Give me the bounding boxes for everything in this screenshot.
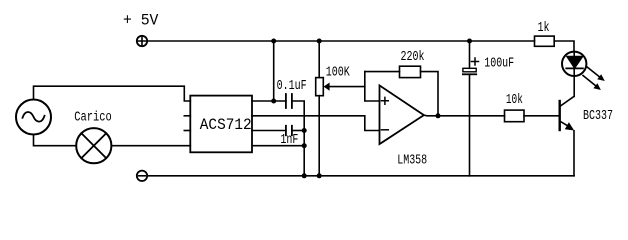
wire LED anode: [573, 52, 575, 57]
wire ACS712 VIOUT to op-amp minus input: [252, 116, 380, 131]
LED light arrow 1: [587, 67, 601, 78]
potentiometer R2 100K vertical leads: [318, 41, 320, 176]
lamp Carico: [76, 128, 111, 163]
wire ACS712 FILTER pin: [252, 130, 286, 132]
capacitor C3 100uF leads: [469, 41, 471, 176]
IC U1 ACS712 box: [190, 96, 252, 153]
svg-text:220k: 220k: [401, 50, 425, 65]
wire LED cathode to collector: [573, 68, 575, 96]
node pot-top junction on rail: [317, 39, 322, 44]
op-amp plus input symbol: [382, 97, 389, 104]
op-amp U2 triangle: [380, 85, 424, 144]
wire feedback vertical: [421, 72, 439, 116]
wire emitter to bottom rail: [573, 131, 575, 176]
svg-text:1k: 1k: [538, 21, 550, 36]
wire VCC vertical drop: [273, 41, 275, 101]
terminal minus: [137, 171, 147, 181]
node 100uF-top junction on rail: [467, 39, 472, 44]
transistor emitter diagonal: [560, 121, 568, 126]
wire 1nF to gnd: [292, 130, 304, 132]
wire feedback left: [365, 71, 400, 73]
potentiometer wiper arrow: [328, 86, 365, 88]
wire AC source bottom to lamp: [34, 135, 77, 146]
potentiometer R2 100K body: [316, 78, 324, 96]
wire AC source top to ACS712 IP+: [34, 86, 191, 101]
svg-text:ACS712: ACS712: [200, 116, 252, 134]
capacitor C1 0.1uF: [286, 94, 292, 108]
node VCC pin junction: [271, 99, 276, 104]
node gnd rail junction: [302, 173, 307, 178]
LED D1 cathode bar: [566, 67, 583, 69]
op-amp minus input symbol: [382, 129, 389, 131]
wire bottom rail: [147, 175, 574, 177]
resistor R4 10k body: [505, 110, 525, 122]
wire lamp to ACS712 IP-: [111, 145, 190, 147]
wire 0.1uF to gnd line: [292, 101, 304, 131]
wire gnd vertical: [303, 131, 305, 176]
node ACS712 gnd pin junction: [302, 143, 307, 148]
capacitor C2 1nF: [286, 126, 292, 135]
svg-text:LM358: LM358: [397, 153, 427, 168]
source V1 AC: [16, 100, 51, 135]
node VCC-cap junction on rail: [271, 39, 276, 44]
node pot bottom on rail: [317, 173, 322, 178]
wire ACS712 GND pin: [252, 145, 304, 147]
transistor collector diagonal: [560, 96, 574, 106]
svg-text:10k: 10k: [506, 93, 523, 108]
wire wiper node to op-amp plus input: [365, 72, 380, 101]
svg-text:100uF: 100uF: [484, 56, 514, 71]
wire top rail: [147, 40, 534, 42]
LED D1 triangle: [567, 56, 584, 68]
capacitor C3 100uF plates: [463, 68, 476, 72]
svg-text:Carico: Carico: [74, 111, 112, 126]
LED D1 circle: [562, 52, 586, 76]
pin stub IP+ left upper: [184, 115, 190, 117]
terminal +5V: [137, 36, 147, 46]
wire op-amp output: [424, 114, 505, 117]
transistor Q1 BC337 base bar: [559, 101, 561, 130]
node 1nF gnd junction: [302, 128, 307, 133]
svg-text:100K: 100K: [326, 66, 351, 81]
wire 10k to transistor base: [524, 115, 560, 117]
svg-text:+ 5V: + 5V: [123, 12, 159, 30]
100uF plus symbol: [472, 58, 479, 65]
svg-text:BC337: BC337: [583, 109, 613, 124]
pin stub IP- left lower: [184, 130, 190, 132]
wire ACS712 VCC pin: [252, 100, 286, 102]
node output junction: [436, 113, 441, 118]
sine symbol: [23, 112, 45, 122]
wire rail to LED: [554, 41, 574, 52]
svg-text:0.1uF: 0.1uF: [277, 79, 307, 94]
resistor R5 1k body: [535, 36, 555, 46]
resistor R3 220k body: [400, 66, 421, 77]
LED light arrow 2: [583, 76, 596, 87]
